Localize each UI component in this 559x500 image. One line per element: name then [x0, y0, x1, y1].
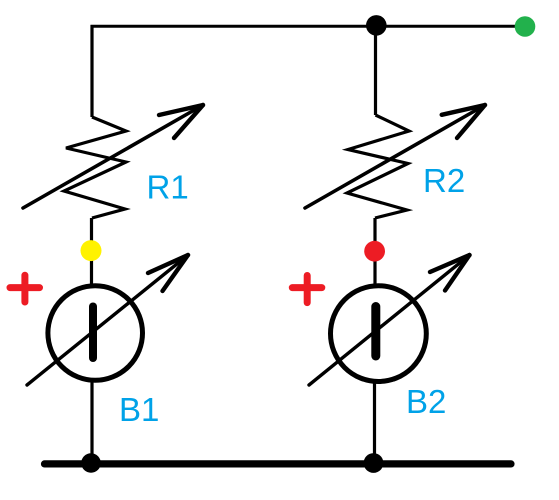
svg-text:B1: B1	[119, 391, 159, 428]
svg-text:R2: R2	[423, 162, 465, 199]
svg-text:B2: B2	[406, 383, 446, 420]
svg-text:R1: R1	[147, 169, 189, 206]
